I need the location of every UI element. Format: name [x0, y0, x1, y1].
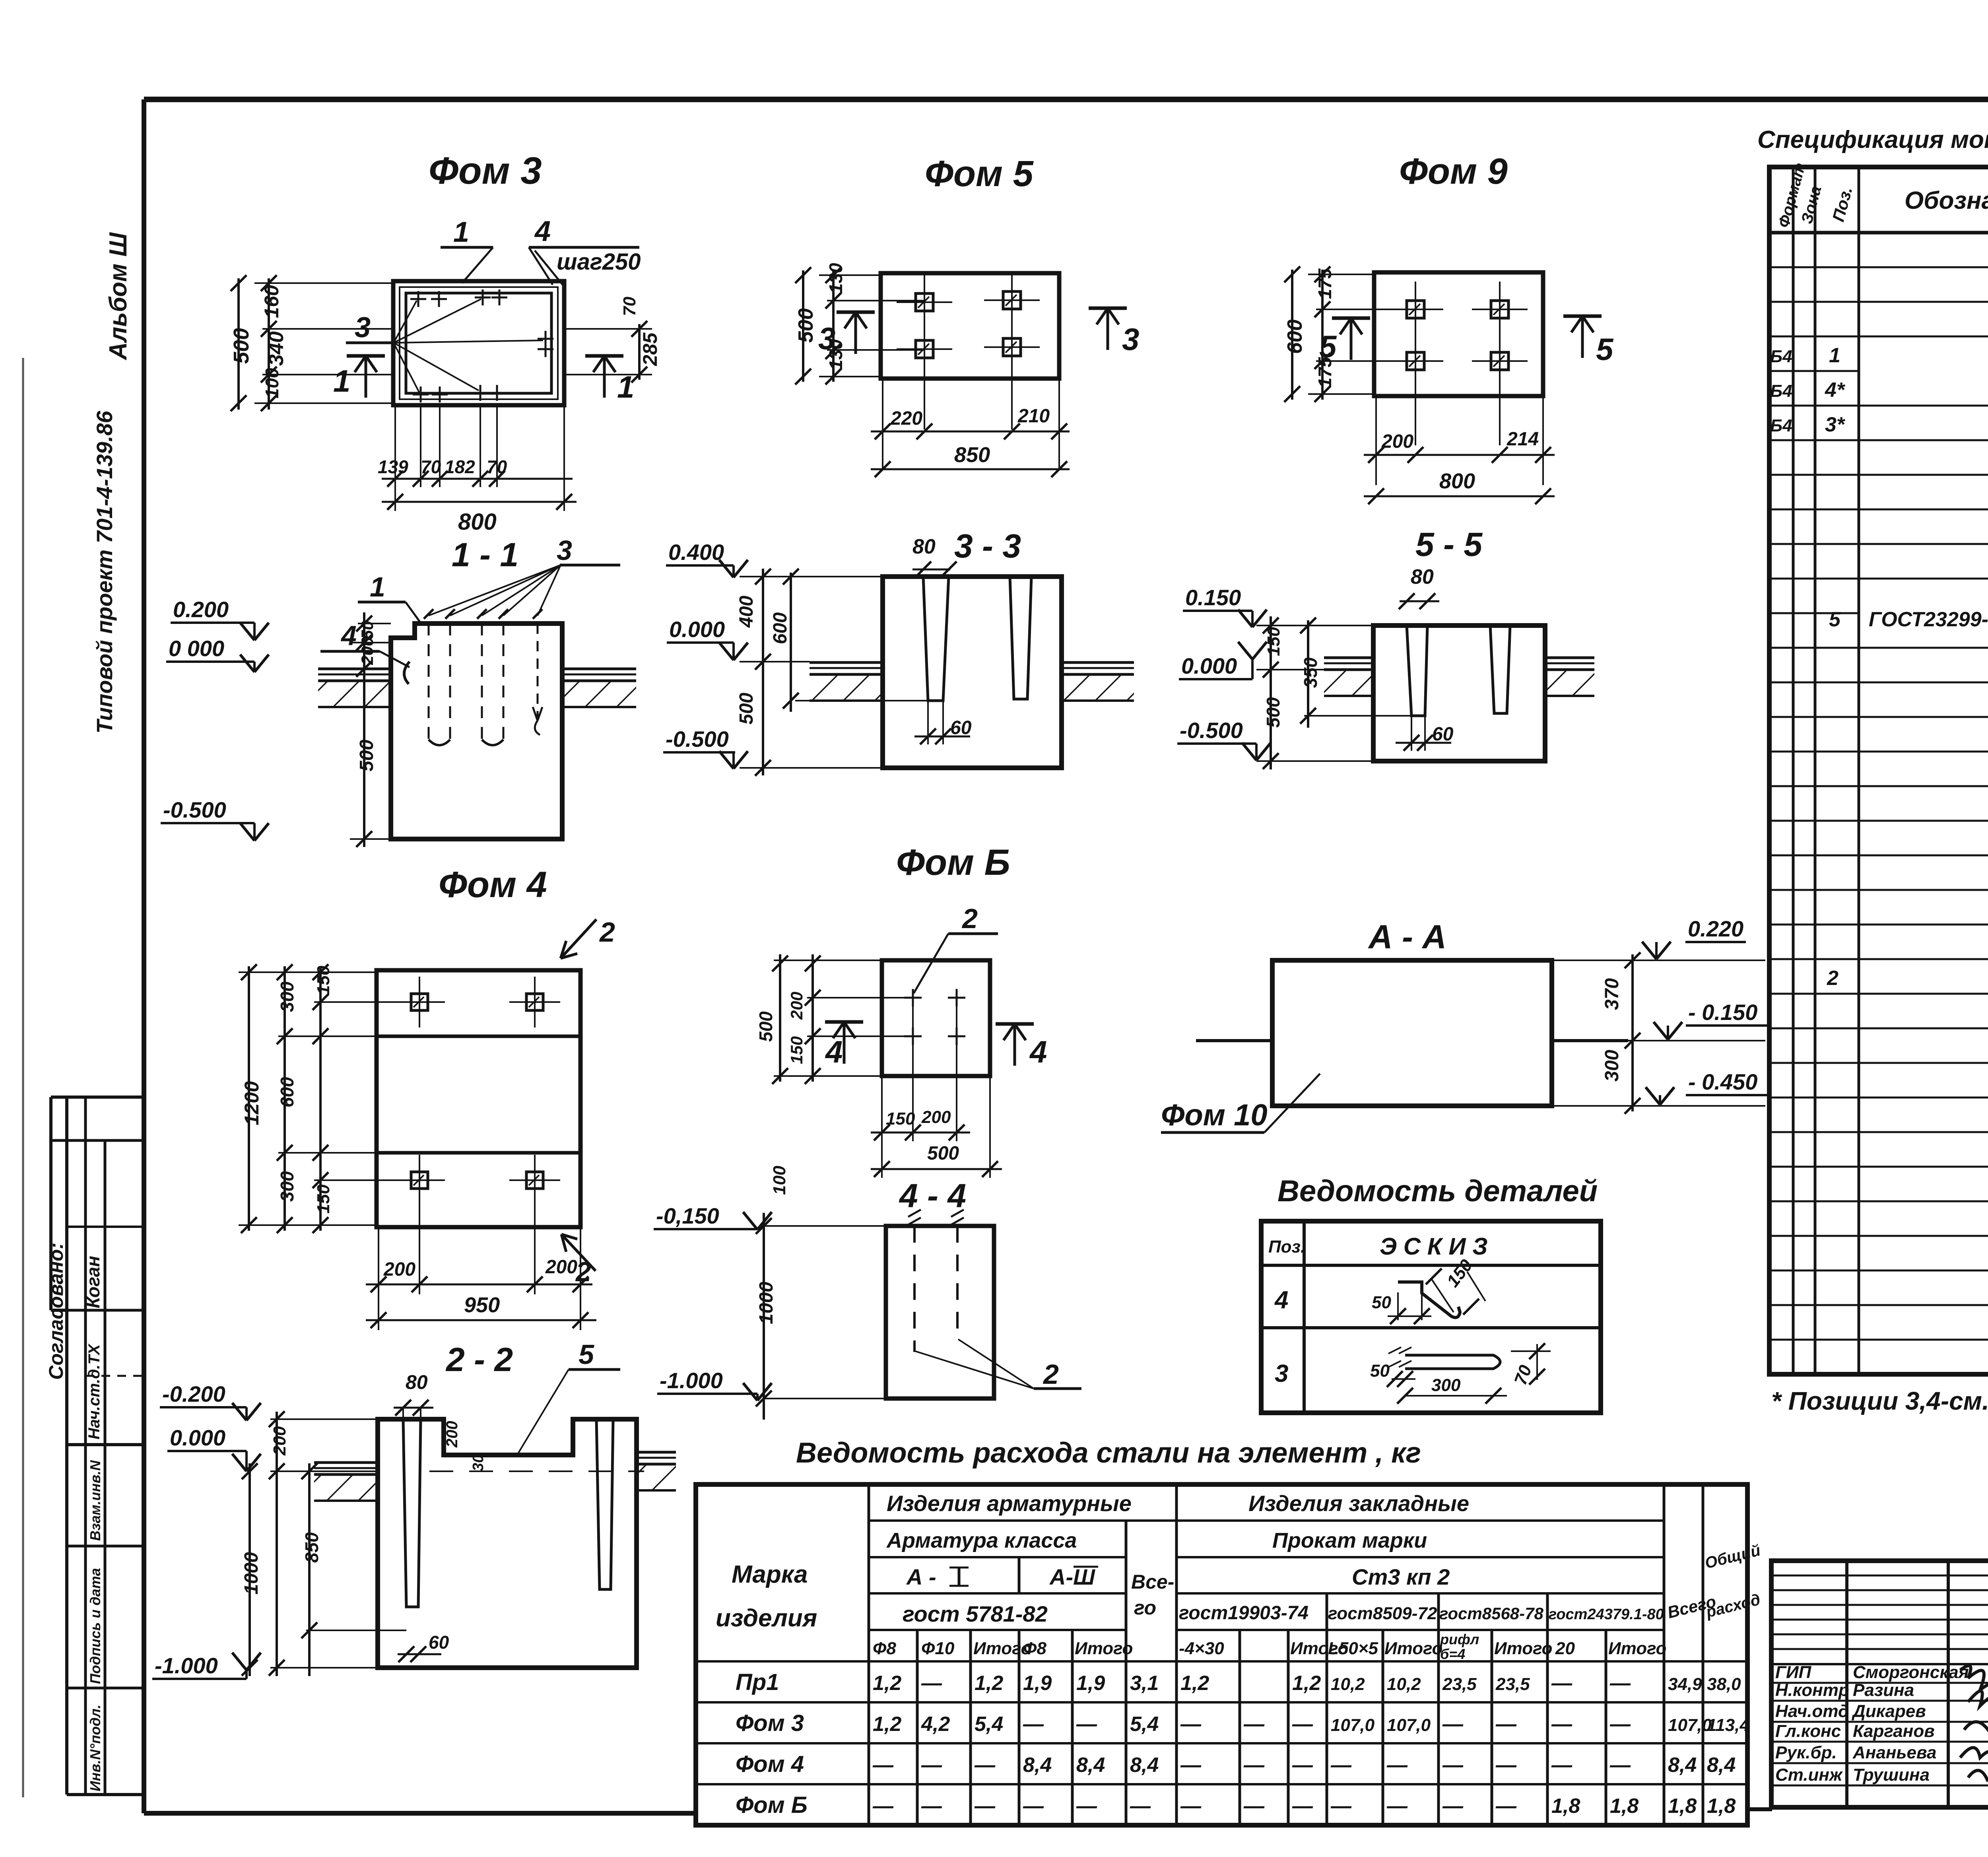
svg-text:Фом 9: Фом 9	[1399, 151, 1508, 192]
svg-text:500: 500	[755, 1011, 776, 1042]
svg-text:Итого: Итого	[1494, 1639, 1552, 1658]
section 2-2 floor right	[637, 1451, 676, 1454]
svg-text:10,2: 10,2	[1387, 1674, 1421, 1694]
svg-text:100: 100	[262, 368, 282, 398]
svg-text:600: 600	[277, 1077, 297, 1107]
svg-text:ГОСТ23299-78: ГОСТ23299-78	[1869, 608, 1988, 631]
svg-text:220: 220	[890, 408, 922, 429]
dim 600 inner left of 3-3	[795, 700, 928, 701]
svg-text:Ф10: Ф10	[921, 1639, 955, 1658]
svg-text:350: 350	[1300, 657, 1321, 688]
svg-text:0.150: 0.150	[1185, 585, 1241, 610]
svg-text:Инв.N°подл.: Инв.N°подл.	[87, 1705, 103, 1791]
svg-text:Фом 10: Фом 10	[1161, 1098, 1268, 1132]
svg-text:300: 300	[1602, 1050, 1623, 1082]
svg-text:Карганов: Карганов	[1853, 1721, 1935, 1741]
svg-text:—: —	[1292, 1713, 1313, 1736]
svg-text:Обозначение: Обозначение	[1905, 187, 1988, 214]
svg-text:2: 2	[961, 903, 978, 934]
plan Фом4 divider top	[377, 1035, 580, 1038]
svg-text:139: 139	[378, 456, 408, 477]
dim 60 at 5-5 slot bottom	[1411, 716, 1412, 751]
svg-text:—: —	[1023, 1795, 1044, 1818]
elevation -0.150 right of А-А	[1628, 1040, 1765, 1041]
svg-text:б=4: б=4	[1440, 1646, 1465, 1662]
section 1-1 floor left	[318, 668, 391, 670]
svg-text:2: 2	[1043, 1359, 1059, 1390]
dim chain left of 5-5	[1256, 625, 1373, 626]
plan Фом9 rect	[1374, 272, 1543, 396]
svg-text:200: 200	[787, 992, 806, 1020]
section 3-3 floor right	[1062, 661, 1134, 664]
svg-text:—: —	[1130, 1795, 1151, 1818]
svg-text:107,0: 107,0	[1387, 1715, 1431, 1735]
svg-text:0.220: 0.220	[1688, 916, 1743, 941]
svg-text:—: —	[921, 1795, 942, 1818]
svg-text:2: 2	[1827, 967, 1839, 990]
svg-text:—: —	[1495, 1713, 1517, 1736]
svg-text:50: 50	[358, 621, 377, 639]
plan Фом4 rect	[377, 970, 580, 1227]
svg-text:800: 800	[1439, 469, 1475, 493]
svg-text:1,8: 1,8	[1668, 1795, 1697, 1818]
svg-text:Сморгонская: Сморгонская	[1853, 1663, 1969, 1682]
plan Фом3 anchor crosses	[410, 298, 426, 300]
svg-text:0.000: 0.000	[170, 1425, 225, 1450]
svg-text:—: —	[921, 1672, 942, 1695]
plan Фом4 divider bottom	[377, 1151, 580, 1155]
svg-text:370: 370	[1602, 978, 1623, 1010]
section 1-1 anchor right dashed	[537, 624, 539, 721]
section 2-2 slot left	[403, 1419, 421, 1607]
section 3-3 slot B	[1010, 577, 1031, 699]
svg-text:23,5: 23,5	[1495, 1674, 1530, 1694]
title block small rows	[1771, 1575, 1988, 1577]
section mark 3 left of Фом5	[854, 312, 857, 354]
svg-text:2 - 2: 2 - 2	[445, 1341, 513, 1378]
svg-text:Изделия арматурные: Изделия арматурные	[887, 1491, 1132, 1516]
svg-text:Дикарев: Дикарев	[1851, 1702, 1926, 1721]
section mark K2 top right of Фом4	[561, 919, 596, 958]
section mark K2 bottom right of Фом4	[561, 1234, 596, 1271]
svg-text:1,8: 1,8	[1551, 1795, 1580, 1818]
svg-text:Ананьева: Ананьева	[1852, 1743, 1936, 1762]
svg-text:-0.500: -0.500	[1180, 718, 1243, 743]
svg-text:—: —	[1180, 1795, 1202, 1818]
svg-text:1,2: 1,2	[975, 1672, 1003, 1695]
svg-text:200: 200	[1381, 431, 1413, 452]
dim chain right of А-А	[1552, 960, 1646, 961]
svg-text:200: 200	[270, 1426, 289, 1456]
elevation -0.450 right of А-А	[1552, 1105, 1765, 1107]
svg-text:500: 500	[794, 308, 817, 343]
svg-text:3: 3	[1122, 322, 1139, 357]
svg-text:1,8: 1,8	[1707, 1795, 1736, 1818]
svg-text:Фом 3: Фом 3	[736, 1710, 804, 1736]
svg-text:0.200: 0.200	[173, 597, 229, 622]
svg-text:3*: 3*	[1825, 413, 1846, 436]
svg-text:гост8568-78: гост8568-78	[1439, 1604, 1544, 1623]
svg-text:214: 214	[1507, 429, 1539, 450]
svg-text:3: 3	[355, 312, 371, 344]
section mark 5 right of Фом9	[1581, 316, 1584, 358]
svg-text:—: —	[1386, 1754, 1408, 1777]
svg-text:—: —	[1442, 1795, 1464, 1818]
steel table frame	[696, 1484, 1747, 1825]
svg-text:600: 600	[1283, 319, 1307, 354]
svg-text:—: —	[1551, 1713, 1573, 1736]
svg-text:200: 200	[921, 1107, 951, 1127]
svg-text:70: 70	[487, 456, 507, 477]
svg-text:Итого: Итого	[1608, 1639, 1666, 1658]
svg-text:1,2: 1,2	[873, 1672, 901, 1695]
spec table frame	[1769, 167, 1988, 1374]
svg-text:5 - 5: 5 - 5	[1415, 526, 1483, 563]
section 1-1 slot A dashed	[428, 624, 430, 740]
svg-text:Разина: Разина	[1853, 1680, 1914, 1700]
svg-text:1,2: 1,2	[1180, 1672, 1209, 1695]
svg-text:Ст3 кп 2: Ст3 кп 2	[1352, 1564, 1450, 1589]
svg-text:Поз.: Поз.	[1268, 1237, 1305, 1257]
svg-text:L50×5: L50×5	[1328, 1639, 1378, 1658]
svg-text:60: 60	[1432, 724, 1454, 745]
details table frame	[1261, 1221, 1601, 1413]
svg-text:1: 1	[333, 363, 350, 398]
svg-text:1200: 1200	[241, 1081, 263, 1125]
section 5-5 slot A	[1407, 625, 1427, 716]
svg-text:Ведомость расхода стали на: Ведомость расхода стали на элемент , кг	[796, 1437, 1421, 1469]
svg-text:50: 50	[1372, 1293, 1391, 1312]
svg-text:4: 4	[534, 216, 551, 247]
svg-text:—: —	[921, 1754, 942, 1777]
plan ФомБ crosses	[904, 997, 922, 999]
svg-text:150: 150	[1264, 627, 1283, 656]
svg-text:5,4: 5,4	[975, 1713, 1003, 1736]
section 4-4 dashed bolts	[913, 1226, 916, 1352]
svg-text:-0,150: -0,150	[656, 1203, 719, 1228]
svg-text:80: 80	[406, 1371, 428, 1393]
svg-text:—: —	[1442, 1754, 1464, 1777]
svg-text:1,2: 1,2	[873, 1713, 901, 1736]
svg-text:Прокат марки: Прокат марки	[1272, 1529, 1427, 1552]
dim chain left of Фом4	[239, 971, 377, 973]
section 1-1 body	[391, 624, 562, 839]
details row 3 sketch	[1405, 1355, 1500, 1369]
svg-text:-0.500: -0.500	[666, 726, 729, 752]
svg-text:3: 3	[1275, 1360, 1288, 1387]
left stamp box	[51, 1096, 144, 1099]
svg-text:800: 800	[458, 509, 497, 535]
svg-text:850: 850	[301, 1532, 322, 1563]
svg-text:1000: 1000	[241, 1552, 262, 1595]
svg-text:гост8509-72: гост8509-72	[1328, 1604, 1437, 1623]
svg-text:300: 300	[1431, 1375, 1461, 1395]
section 3-3 floor left	[810, 661, 883, 664]
svg-text:5: 5	[1596, 332, 1614, 367]
svg-text:рифл: рифл	[1440, 1631, 1479, 1647]
svg-text:20: 20	[1555, 1639, 1575, 1658]
svg-text:200: 200	[443, 1421, 461, 1448]
section 5-5 body	[1373, 625, 1545, 761]
dim chain left of Фом3	[254, 282, 393, 284]
dim chain bottom of Фом9	[1375, 396, 1377, 485]
svg-text:210: 210	[1017, 406, 1050, 427]
dim chain bottom of Фом4	[378, 1227, 379, 1330]
plan Фом3 outer rect	[393, 281, 564, 405]
svg-text:107,0: 107,0	[1331, 1715, 1375, 1735]
svg-text:—: —	[1076, 1713, 1097, 1736]
title block signature columns	[1845, 1561, 1848, 1807]
svg-text:150: 150	[787, 1036, 806, 1064]
svg-text:Фом 5: Фом 5	[925, 153, 1034, 194]
svg-text:- 0.450: - 0.450	[1688, 1069, 1757, 1094]
section 1-1 rebar ticks on top	[424, 609, 433, 619]
svg-text:80: 80	[912, 535, 936, 558]
svg-text:107,0: 107,0	[1668, 1715, 1712, 1735]
svg-text:-1.000: -1.000	[660, 1368, 723, 1393]
section А-А body	[1272, 960, 1552, 1106]
svg-text:1000: 1000	[756, 1282, 777, 1324]
dim 285 right of Фом3	[564, 328, 652, 330]
svg-text:Ведомость деталей: Ведомость деталей	[1277, 1174, 1598, 1208]
svg-text:—: —	[1292, 1795, 1313, 1818]
svg-text:0.400: 0.400	[668, 540, 724, 565]
plan Фом9 plates	[1407, 301, 1424, 318]
svg-text:500: 500	[356, 740, 377, 771]
svg-text:А-Ш: А-Ш	[1049, 1564, 1095, 1589]
svg-text:3,1: 3,1	[1130, 1672, 1159, 1695]
svg-text:150: 150	[886, 1109, 915, 1129]
svg-text:Фом 4: Фом 4	[439, 864, 547, 905]
svg-text:8,4: 8,4	[1130, 1754, 1159, 1777]
svg-text:Фом Б: Фом Б	[896, 842, 1010, 883]
svg-text:Фом Б: Фом Б	[736, 1792, 808, 1818]
section 5-5 slot B	[1490, 625, 1510, 713]
svg-text:—: —	[1180, 1713, 1202, 1736]
dim chain left of ФомБ	[812, 954, 814, 1082]
svg-text:150: 150	[314, 1184, 333, 1214]
svg-text:Арматура класса: Арматура класса	[886, 1529, 1077, 1552]
svg-text:Подпись и дата: Подпись и дата	[87, 1568, 103, 1684]
svg-text:—: —	[1551, 1672, 1573, 1695]
svg-text:Итого: Итого	[1384, 1639, 1442, 1658]
section 2-2 floor left	[314, 1461, 378, 1464]
svg-text:Итого: Итого	[1075, 1639, 1133, 1658]
dim 60 at 3-3 slot bottom	[927, 701, 929, 744]
svg-text:100: 100	[770, 1165, 789, 1195]
section mark 1 bottom-left of Фом3	[365, 356, 367, 398]
section mark 4 left of ФомБ	[843, 1022, 846, 1064]
dim chain left of Фом9	[1308, 274, 1374, 275]
svg-text:300: 300	[277, 981, 297, 1012]
svg-text:1 - 1: 1 - 1	[452, 536, 518, 573]
section 2-2 body outline	[378, 1419, 637, 1668]
svg-text:Коган: Коган	[83, 1256, 103, 1308]
svg-text:8,4: 8,4	[1023, 1754, 1052, 1777]
svg-text:—: —	[1495, 1795, 1517, 1818]
svg-text:175: 175	[1314, 268, 1335, 299]
svg-text:Н.контр: Н.контр	[1775, 1680, 1849, 1700]
section mark 4 right of ФомБ	[1013, 1024, 1016, 1066]
svg-text:5,4: 5,4	[1130, 1713, 1159, 1736]
svg-text:Пр1: Пр1	[736, 1669, 779, 1695]
dim 60 at 2-2 slot bottom	[398, 1653, 441, 1655]
svg-text:950: 950	[464, 1293, 500, 1317]
section 2-2 slot right	[596, 1419, 613, 1589]
svg-text:70: 70	[620, 297, 639, 316]
svg-text:Трушина: Трушина	[1853, 1765, 1930, 1785]
svg-text:0.000: 0.000	[1181, 653, 1237, 678]
dim chain bottom of Фом5	[882, 379, 883, 469]
svg-text:200: 200	[383, 1259, 415, 1280]
svg-text:Э С К И З: Э С К И З	[1380, 1233, 1488, 1260]
svg-text:2: 2	[599, 917, 615, 948]
svg-text:0 000: 0 000	[169, 636, 224, 661]
svg-text:—: —	[1609, 1672, 1631, 1695]
svg-text:3 - 3: 3 - 3	[954, 527, 1021, 565]
left margin fold line	[22, 358, 24, 1797]
svg-text:5: 5	[1829, 608, 1841, 631]
svg-text:34,9: 34,9	[1668, 1674, 1702, 1694]
svg-text:150: 150	[314, 965, 333, 995]
section А-А side lines	[1196, 1039, 1272, 1042]
svg-text:38,0: 38,0	[1707, 1674, 1741, 1694]
svg-text:Все-: Все-	[1131, 1571, 1174, 1593]
svg-text:гост 5781-82: гост 5781-82	[903, 1601, 1048, 1626]
dim 350 inner left of 5-5	[1304, 715, 1411, 717]
svg-text:Ф8: Ф8	[1023, 1639, 1046, 1658]
svg-text:Б4: Б4	[1770, 416, 1792, 435]
svg-text:60: 60	[950, 717, 972, 738]
svg-text:изделия: изделия	[716, 1604, 817, 1632]
svg-text:80: 80	[1411, 565, 1434, 589]
svg-text:—: —	[1292, 1754, 1313, 1777]
svg-text:гост19903-74: гост19903-74	[1179, 1603, 1309, 1624]
section 5-5 floor left	[1324, 657, 1373, 659]
section mark 5 left of Фом9	[1350, 318, 1353, 360]
svg-text:—: —	[872, 1795, 894, 1818]
svg-text:—: —	[1243, 1795, 1265, 1818]
svg-text:—: —	[1609, 1754, 1631, 1777]
svg-text:-0.500: -0.500	[163, 797, 226, 822]
svg-text:285: 285	[639, 332, 661, 366]
svg-text:4*: 4*	[1825, 379, 1846, 402]
section 4-4 body	[886, 1226, 994, 1399]
svg-text:4: 4	[340, 620, 357, 651]
svg-text:10,2: 10,2	[1331, 1674, 1365, 1694]
section 1-1 slot B dashed	[481, 624, 483, 740]
svg-text:-4×30: -4×30	[1179, 1639, 1224, 1658]
svg-text:Б4: Б4	[1770, 381, 1792, 401]
svg-text:1,9: 1,9	[1023, 1672, 1052, 1695]
svg-text:4,2: 4,2	[921, 1713, 950, 1736]
svg-text:3: 3	[557, 535, 572, 566]
svg-text:Рук.бр.: Рук.бр.	[1775, 1743, 1837, 1762]
plan Фом3 inner rect	[406, 293, 551, 393]
svg-text:Нач.отд: Нач.отд	[1775, 1702, 1849, 1721]
svg-text:5: 5	[579, 1339, 594, 1370]
plan Фом3 inner dashed line	[400, 287, 558, 399]
title block frame	[1771, 1561, 1988, 1807]
svg-text:1: 1	[370, 571, 385, 602]
svg-text:340: 340	[265, 331, 288, 366]
svg-text:4: 4	[825, 1034, 843, 1069]
svg-text:8,4: 8,4	[1668, 1754, 1697, 1777]
dim chain left of 2-2	[270, 1418, 378, 1420]
section 3-3 slot A	[923, 577, 949, 701]
svg-text:4: 4	[1274, 1286, 1288, 1314]
dim chain left of 1-1	[358, 623, 391, 624]
svg-text:23,5: 23,5	[1442, 1674, 1477, 1694]
svg-text:—: —	[1243, 1713, 1265, 1736]
section 4-4 bolt break marks	[908, 1210, 921, 1225]
svg-text:0.000: 0.000	[669, 617, 725, 642]
svg-text:600: 600	[770, 612, 791, 644]
svg-text:шаг250: шаг250	[557, 249, 641, 275]
svg-text:—: —	[1609, 1713, 1631, 1736]
sheet frame	[144, 97, 1988, 102]
svg-text:Типовой проект 701-4-139.86: Типовой проект 701-4-139.86	[92, 410, 117, 734]
svg-text:500: 500	[229, 328, 253, 364]
svg-text:175: 175	[1314, 357, 1335, 388]
svg-text:200: 200	[545, 1257, 577, 1278]
svg-text:60: 60	[429, 1632, 449, 1653]
svg-text:30: 30	[470, 1455, 487, 1471]
svg-text:8,4: 8,4	[1076, 1754, 1105, 1777]
dim chain left of 4-4	[763, 1225, 886, 1227]
dim chain bottom of Фом3	[394, 405, 396, 511]
svg-text:—: —	[1386, 1795, 1408, 1818]
svg-text:—: —	[1495, 1754, 1517, 1777]
svg-text:—: —	[872, 1754, 894, 1777]
svg-text:го: го	[1134, 1597, 1156, 1619]
svg-text:130: 130	[825, 339, 846, 370]
section 1-1 floor right	[562, 668, 636, 670]
steel table horizontals	[869, 1519, 1664, 1522]
svg-text:4: 4	[1029, 1034, 1047, 1069]
svg-text:4 - 4: 4 - 4	[899, 1177, 966, 1214]
svg-text:* Позиции 3,4-см. Ведомость д: * Позиции 3,4-см. Ведомость деталей	[1771, 1387, 1988, 1415]
svg-text:—: —	[1330, 1795, 1352, 1818]
svg-text:—: —	[1023, 1713, 1044, 1736]
svg-text:Б4: Б4	[1770, 347, 1792, 366]
svg-text:500: 500	[927, 1143, 959, 1164]
svg-text:182: 182	[445, 456, 475, 477]
svg-text:—: —	[1442, 1713, 1464, 1736]
elevation 0.220 right of А-А	[1552, 960, 1765, 961]
svg-text:1,9: 1,9	[1076, 1672, 1105, 1695]
svg-text:- 0.150: - 0.150	[1688, 1000, 1757, 1025]
svg-text:Фом 3: Фом 3	[429, 150, 542, 192]
svg-text:500: 500	[736, 693, 757, 725]
svg-text:ГИП: ГИП	[1775, 1663, 1812, 1682]
svg-text:1,8: 1,8	[1610, 1795, 1639, 1818]
section mark 3 right of Фом5	[1107, 308, 1109, 350]
section 5-5 floor right	[1545, 657, 1594, 659]
svg-text:—: —	[974, 1795, 996, 1818]
svg-text:850: 850	[954, 443, 990, 467]
plan ФомБ rect	[882, 960, 990, 1076]
svg-text:Ф8: Ф8	[873, 1639, 896, 1658]
svg-text:-1.000: -1.000	[155, 1653, 218, 1678]
plan Фом5 rect	[881, 273, 1059, 379]
svg-text:Ст.инж: Ст.инж	[1775, 1765, 1843, 1785]
section mark 1 right of Фом3	[603, 356, 606, 398]
steel table verticals	[868, 1484, 870, 1825]
plan Фом5 plates	[916, 293, 933, 311]
svg-text:8,4: 8,4	[1707, 1754, 1736, 1777]
svg-text:—: —	[1180, 1754, 1202, 1777]
